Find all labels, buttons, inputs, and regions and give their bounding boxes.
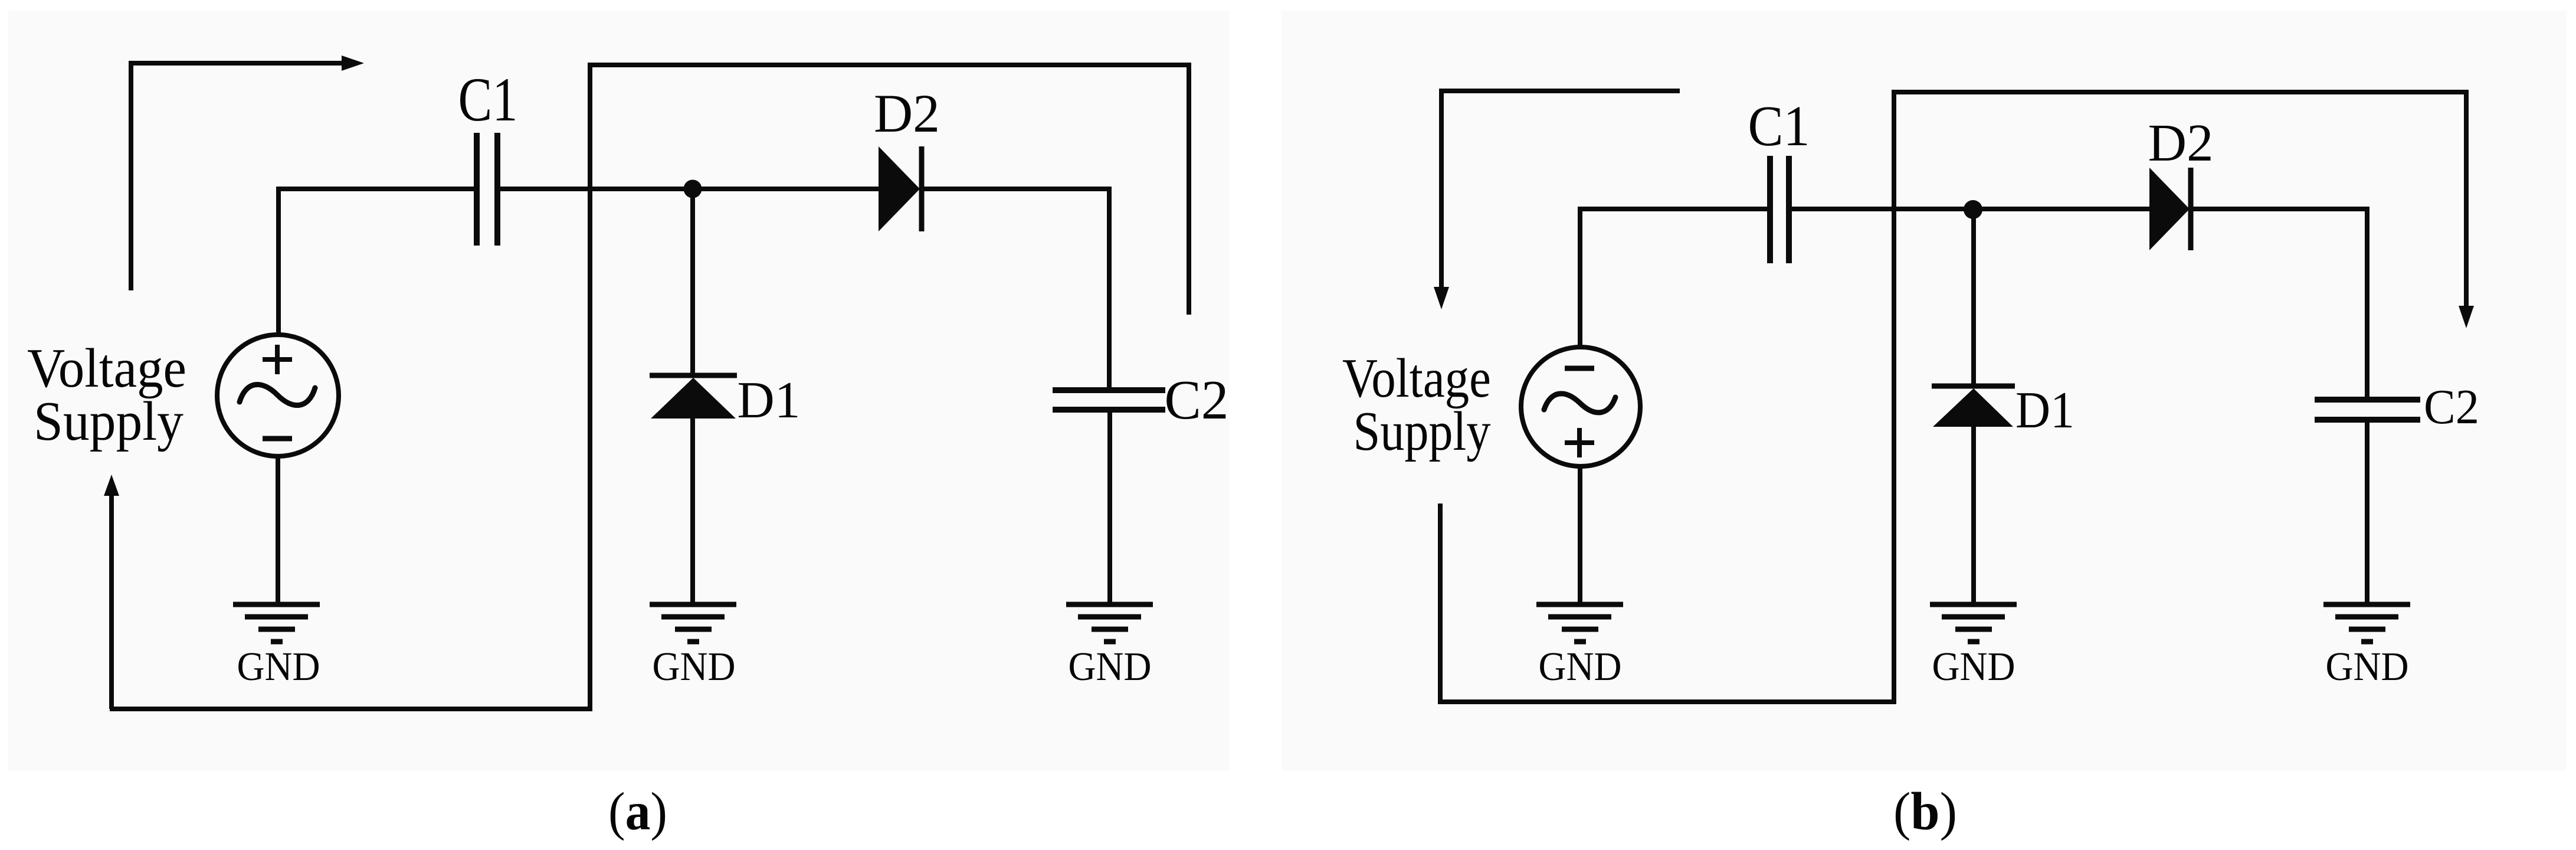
ground under D1 (a) [650, 604, 736, 642]
svg-text:D2: D2 [2148, 114, 2214, 172]
wire D1 to ground (b) [1971, 424, 1976, 603]
wire junction to D1 (a) [690, 189, 695, 377]
node junction dot (a) [684, 180, 702, 198]
wire supply to C1 (a) [278, 189, 474, 334]
label Voltage Supply (b) [1342, 348, 1491, 462]
return loop wire (b): left-down, bottom, mid-up, top [1440, 92, 2466, 702]
ground under C2 (a) [1066, 604, 1153, 642]
diode D1 (b) [1932, 386, 2015, 427]
current-flow arrow top-left (b) [1434, 91, 1680, 309]
panel a background [8, 11, 1230, 771]
svg-text:GND: GND [1932, 644, 2015, 689]
svg-text:(b): (b) [1893, 782, 1957, 841]
capacitor C1 (a) [477, 133, 497, 246]
svg-text:GND: GND [2326, 644, 2409, 689]
diode D2 (b) [2149, 168, 2191, 250]
capacitor C1 (b) [1770, 156, 1789, 263]
label Voltage Supply (a) [27, 338, 186, 452]
svg-text:GND: GND [653, 644, 736, 689]
current-flow arrow top-left (a) [131, 55, 364, 290]
svg-text:D2: D2 [874, 83, 940, 143]
ground under C2 (b) [2323, 604, 2410, 642]
diode D1 (a) [650, 375, 737, 419]
svg-text:C2: C2 [2424, 380, 2479, 434]
svg-text:(a): (a) [608, 782, 667, 841]
svg-text:C2: C2 [1165, 370, 1229, 431]
diode D2 (a) [879, 146, 922, 231]
wire C1 to D2 (a) [500, 187, 880, 191]
ground under supply (a) [233, 604, 320, 642]
wire supply to C1 (b) [1580, 209, 1768, 348]
ground under supply (b) [1536, 604, 1623, 642]
wire C1 to D2 (b) [1791, 207, 2151, 211]
voltage supply source U (b) [1521, 347, 1640, 466]
wire D2 to C2 (a) [922, 189, 1109, 388]
svg-text:GND: GND [237, 644, 320, 689]
capacitor C2 (b) [2315, 400, 2420, 420]
wire supply to ground (a) [276, 456, 280, 603]
svg-text:C1: C1 [458, 65, 518, 134]
capacitor C2 (a) [1053, 390, 1165, 410]
svg-text:Voltage: Voltage [27, 338, 186, 399]
svg-text:C1: C1 [1748, 94, 1810, 158]
wire D1 to ground (a) [690, 416, 695, 603]
wire junction to D1 (b) [1971, 210, 1976, 387]
svg-text:Supply: Supply [1353, 401, 1491, 462]
wire C2 to ground (a) [1107, 412, 1112, 603]
voltage supply source U (a) [217, 335, 339, 456]
svg-text:Voltage: Voltage [1342, 348, 1491, 409]
wire supply to ground (b) [1578, 466, 1582, 603]
ground under D1 (b) [1930, 604, 2017, 642]
return arrow up (a) [104, 475, 119, 709]
panel b background [1282, 11, 2567, 771]
node junction dot (b) [1964, 200, 1982, 219]
output loop wire (a): bottom, left-up, top, right-down [590, 65, 1189, 315]
svg-text:D1: D1 [2015, 382, 2074, 439]
svg-text:D1: D1 [738, 372, 801, 429]
svg-text:GND: GND [1069, 644, 1152, 689]
wire D2 to C2 (b) [2191, 209, 2367, 397]
svg-text:Supply: Supply [34, 391, 183, 452]
flow arrow down right (b) [2459, 306, 2474, 328]
wire C2 to ground (b) [2365, 422, 2369, 603]
svg-text:GND: GND [1539, 644, 1622, 689]
